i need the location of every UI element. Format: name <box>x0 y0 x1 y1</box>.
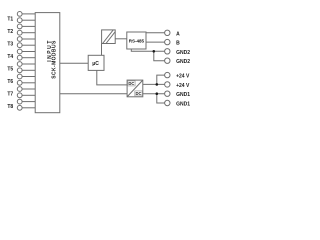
wire T7 pin 2 to input block <box>22 94 35 96</box>
wire input block to uC <box>60 62 88 64</box>
svg-text:DC: DC <box>135 91 141 96</box>
terminal circle +24 V row 2 <box>165 82 170 87</box>
svg-text:RS-485: RS-485 <box>129 38 145 43</box>
terminal circle T6 pin 2 <box>17 80 22 85</box>
wire GND2 jumper to second GND2 terminal <box>154 51 165 60</box>
wire U4 to terminal A <box>146 32 165 34</box>
RS-485 transceiver U4 box <box>127 32 146 49</box>
svg-text:GND2: GND2 <box>176 50 190 56</box>
isolator U3 diagonal 1 <box>103 30 114 44</box>
wire T5 pin 1 to input block <box>22 63 35 65</box>
wire U4 to terminal B <box>146 41 165 43</box>
input block U1 (INPUT SCK-MODBUS) <box>35 13 60 113</box>
terminal circle A <box>165 30 170 35</box>
svg-text:A: A <box>176 31 180 37</box>
terminal circle B <box>165 39 170 44</box>
DC/DC converter U5 diagonal <box>127 80 143 97</box>
wire T4 pin 1 to input block <box>22 51 35 53</box>
microcontroller U2 box <box>88 55 104 70</box>
wire T1 pin 2 to input block <box>22 19 35 21</box>
terminal circle T2 pin 1 <box>17 24 22 29</box>
svg-text:T3: T3 <box>7 42 13 48</box>
wire uC bottom to DC/DC upper input <box>97 70 127 85</box>
svg-text:DC: DC <box>128 81 134 86</box>
wire uC top to isolator U3 <box>101 44 103 56</box>
svg-text:GND2: GND2 <box>176 59 190 65</box>
wire U4 to terminal GND2 <box>131 49 164 51</box>
svg-text:+24 V: +24 V <box>176 74 190 80</box>
terminal circle T5 pin 1 <box>17 62 22 67</box>
terminal circle T1 pin 1 <box>17 12 22 17</box>
terminal circle GND1 row 1 <box>165 91 170 96</box>
terminal circle T3 pin 2 <box>17 43 22 48</box>
DC/DC converter U5 box <box>127 80 143 97</box>
terminal circle T1 pin 2 <box>17 18 22 23</box>
wire T7 pin 1 to input block <box>22 88 35 90</box>
terminal circle GND2 row 1 <box>165 49 170 54</box>
wire input block to DC/DC lower input <box>60 93 127 95</box>
wire U5 to GND1 terminal row 1 <box>143 93 165 95</box>
DC label box (U5 primary) <box>128 81 135 86</box>
svg-text:T2: T2 <box>7 29 13 35</box>
terminal circle T3 pin 1 <box>17 37 22 42</box>
terminal circle T8 pin 2 <box>17 105 22 110</box>
svg-text:SCK-MODBUS: SCK-MODBUS <box>51 40 57 79</box>
svg-text:GND1: GND1 <box>176 92 190 98</box>
svg-text:μC: μC <box>92 61 99 67</box>
terminal circle T4 pin 1 <box>17 49 22 54</box>
terminal circle GND1 row 2 <box>165 100 170 105</box>
terminal circle T4 pin 2 <box>17 55 22 60</box>
svg-text:T6: T6 <box>7 79 13 85</box>
isolator U3 box <box>102 30 116 44</box>
junction node GND2 <box>153 50 156 53</box>
wire T5 pin 2 to input block <box>22 69 35 71</box>
terminal circle T6 pin 1 <box>17 74 22 79</box>
svg-text:B: B <box>176 41 180 47</box>
svg-text:T7: T7 <box>7 92 13 98</box>
wire T3 pin 2 to input block <box>22 44 35 46</box>
wire T4 pin 2 to input block <box>22 57 35 59</box>
svg-text:+24 V: +24 V <box>176 83 190 89</box>
wire T2 pin 1 to input block <box>22 25 35 27</box>
terminal circle T2 pin 2 <box>17 30 22 35</box>
isolator U3 diagonal 2 <box>106 32 115 44</box>
terminal circle T8 pin 1 <box>17 99 22 104</box>
svg-text:T4: T4 <box>7 54 13 60</box>
wire T8 pin 1 to input block <box>22 101 35 103</box>
wire T6 pin 2 to input block <box>22 82 35 84</box>
terminal circle GND2 row 2 <box>165 58 170 63</box>
junction node +24 V <box>156 83 159 86</box>
wire isolator U3 to RS-485 transceiver U4 <box>115 38 127 40</box>
wire T1 pin 1 to input block <box>22 13 35 15</box>
DC label box (U5 secondary) <box>135 91 142 96</box>
wire +24 V jumper to first +24 V terminal <box>157 75 165 84</box>
wire T2 pin 2 to input block <box>22 32 35 34</box>
svg-text:GND1: GND1 <box>176 102 190 108</box>
svg-text:T1: T1 <box>7 17 13 23</box>
terminal circle T5 pin 2 <box>17 68 22 73</box>
wire T3 pin 1 to input block <box>22 38 35 40</box>
wire GND1 jumper to second GND1 terminal <box>157 94 165 103</box>
wire T6 pin 1 to input block <box>22 76 35 78</box>
terminal circle T7 pin 1 <box>17 87 22 92</box>
wire T8 pin 2 to input block <box>22 107 35 109</box>
svg-text:T5: T5 <box>7 67 13 73</box>
wire U5 to +24 V terminal row 2 <box>143 83 165 85</box>
terminal circle T7 pin 2 <box>17 93 22 98</box>
svg-text:T8: T8 <box>7 104 13 110</box>
junction node GND1 <box>156 92 159 95</box>
terminal circle +24 V row 1 <box>165 72 170 77</box>
